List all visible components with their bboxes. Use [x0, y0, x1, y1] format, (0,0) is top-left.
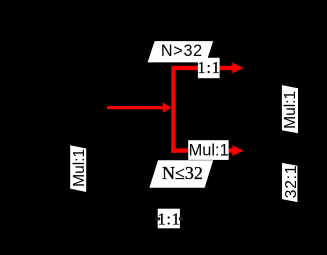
svg-text:N>32: N>32 [161, 42, 203, 60]
svg-text:1:1: 1:1 [157, 210, 180, 229]
svg-text:32:1: 32:1 [283, 165, 300, 199]
svg-text:Mul:1: Mul:1 [282, 91, 299, 129]
svg-text:N≤32: N≤32 [162, 163, 203, 183]
svg-text:1:1: 1:1 [197, 58, 220, 77]
svg-text:Mul:1: Mul:1 [189, 142, 229, 160]
svg-text:Mul:1: Mul:1 [71, 149, 88, 187]
